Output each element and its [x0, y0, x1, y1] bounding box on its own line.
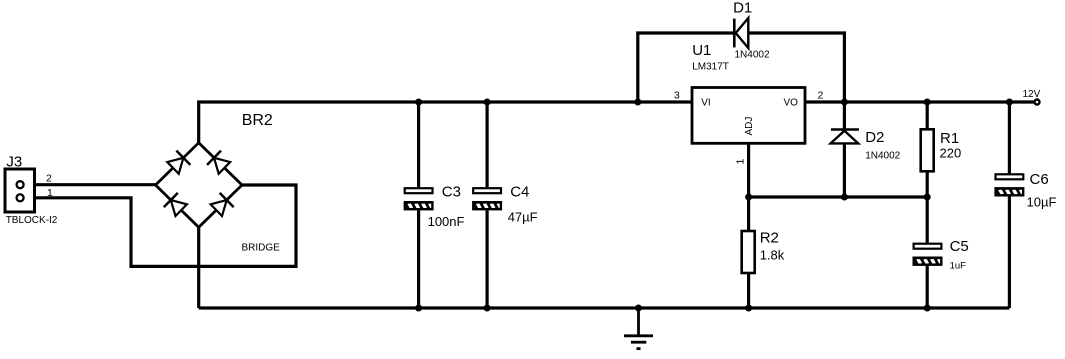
wire C4 top leg: [486, 102, 489, 187]
svg-text:C3: C3: [442, 184, 461, 201]
svg-text:VI: VI: [701, 98, 710, 109]
svg-text:3: 3: [674, 90, 680, 102]
junction at C3 top: [415, 99, 422, 106]
svg-text:1N4002: 1N4002: [865, 151, 900, 162]
wire ADJ horizontal to R1: [749, 195, 928, 198]
junction at R2 bottom: [745, 305, 752, 312]
wire J3 pin 2 to bridge left: [25, 183, 156, 186]
diode D1: [734, 18, 748, 48]
svg-text:LM317T: LM317T: [692, 62, 729, 73]
capacitor C6: [993, 174, 1025, 196]
svg-text:1N4002: 1N4002: [735, 50, 770, 61]
wire bridge bottom to ground rail: [197, 227, 200, 308]
svg-text:1.8k: 1.8k: [760, 248, 785, 263]
wire C3 top leg: [417, 102, 420, 187]
junction at ADJ node: [745, 194, 752, 201]
wire C3 bottom leg: [417, 210, 420, 308]
wire R2 bottom leg: [747, 273, 750, 308]
wire U1 ADJ down to R2: [747, 143, 750, 231]
connector J3: [5, 169, 35, 212]
svg-text:10µF: 10µF: [1027, 195, 1057, 210]
wire C6 top leg: [1008, 102, 1011, 173]
bridge rectifier BR2: [156, 143, 243, 228]
bridge diode bottom-right: [209, 193, 233, 217]
junction at C4 top: [484, 99, 491, 106]
svg-text:1uF: 1uF: [950, 260, 967, 271]
svg-text:1: 1: [47, 187, 53, 199]
wire C4 bottom leg: [486, 210, 489, 308]
svg-text:BR2: BR2: [242, 112, 273, 129]
svg-text:2: 2: [818, 90, 824, 102]
wire R1 top leg: [926, 102, 929, 130]
svg-text:ADJ: ADJ: [744, 117, 755, 136]
wire D1 loop right leg: [748, 33, 844, 102]
wire D2 bottom leg: [843, 143, 846, 197]
capacitor C3: [402, 188, 434, 210]
regulator U1 LM317T: [692, 88, 805, 144]
svg-text:D1: D1: [733, 0, 752, 17]
resistor R2: [742, 231, 755, 273]
junction at C6 top: [1006, 99, 1013, 106]
ground: [624, 308, 653, 349]
svg-text:2: 2: [46, 172, 52, 184]
junction at D1 left: [634, 99, 641, 106]
svg-text:C5: C5: [950, 238, 969, 255]
svg-text:R2: R2: [760, 229, 779, 246]
svg-text:220: 220: [940, 145, 962, 160]
resistor R1: [921, 129, 934, 171]
svg-text:100nF: 100nF: [428, 214, 465, 229]
wire D1 loop left leg: [638, 33, 733, 102]
svg-text:TBLOCK-I2: TBLOCK-I2: [6, 215, 58, 226]
svg-text:C6: C6: [1030, 171, 1049, 188]
wire J3 pin 1 around to bridge right: [25, 185, 297, 266]
wire R1 to C5: [926, 172, 929, 243]
bridge diode top-right: [207, 151, 231, 175]
wire VO output rail to 12V terminal: [805, 100, 1034, 103]
svg-text:BRIDGE: BRIDGE: [242, 242, 281, 253]
junction at C3 bottom: [415, 305, 422, 312]
junction at C5 bottom: [924, 305, 931, 312]
junction at R1 top: [924, 99, 931, 106]
junction at ground tap: [635, 305, 642, 312]
junction at D1 right / D2 top: [841, 99, 848, 106]
svg-text:VO: VO: [784, 98, 799, 109]
svg-text:C4: C4: [510, 184, 529, 201]
bridge diode bottom-left: [164, 193, 188, 217]
svg-text:1: 1: [735, 159, 747, 165]
capacitor C5: [911, 244, 943, 266]
junction at D2 bottom: [841, 194, 848, 201]
wire bottom ground rail: [199, 306, 1010, 309]
junction at R1 bottom: [924, 194, 931, 201]
wire D2 top leg: [843, 102, 846, 129]
junction at C4 bottom: [484, 305, 491, 312]
svg-text:J3: J3: [6, 154, 22, 171]
svg-text:47µF: 47µF: [508, 210, 538, 225]
wire C5 bottom leg: [926, 266, 929, 308]
svg-text:12V: 12V: [1023, 89, 1041, 100]
svg-text:U1: U1: [692, 42, 711, 59]
wire C6 bottom leg: [1008, 196, 1011, 308]
node 12V terminal: [1035, 100, 1040, 105]
capacitor C4: [471, 188, 503, 210]
bridge diode top-left: [166, 151, 190, 175]
svg-text:D2: D2: [865, 129, 884, 146]
wire top rail from bridge to U1 VI: [199, 102, 692, 143]
diode D2: [831, 130, 859, 144]
